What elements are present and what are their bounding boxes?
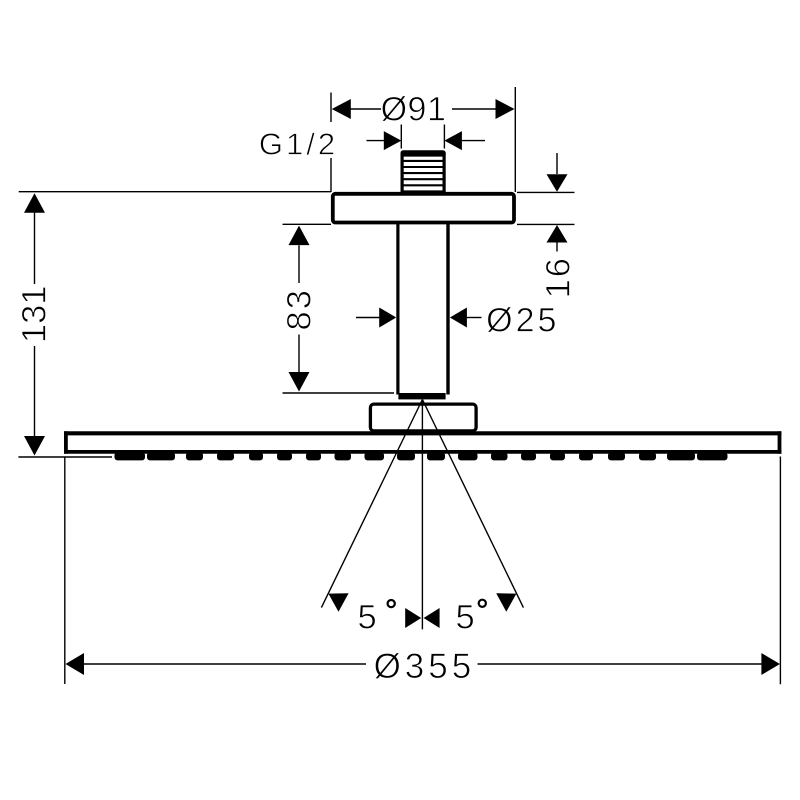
svg-text:5: 5 — [456, 599, 475, 637]
svg-text:Ø91: Ø91 — [381, 90, 447, 128]
svg-text:G1/2: G1/2 — [259, 127, 338, 162]
svg-text:Ø25: Ø25 — [486, 302, 559, 340]
svg-text:5: 5 — [358, 599, 377, 637]
svg-text:Ø355: Ø355 — [374, 647, 476, 686]
svg-text:131: 131 — [16, 286, 54, 344]
svg-text:16: 16 — [540, 256, 578, 298]
svg-text:83: 83 — [281, 288, 319, 330]
